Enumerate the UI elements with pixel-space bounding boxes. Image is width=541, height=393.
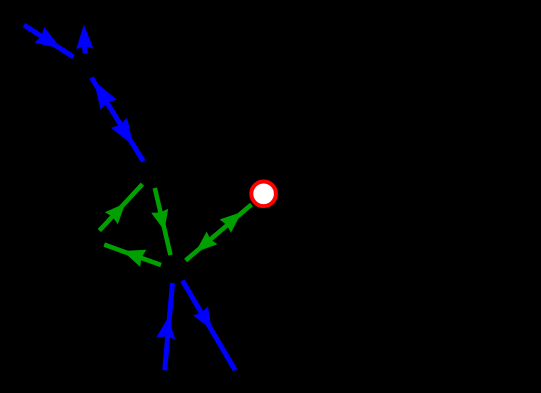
wire: green edge line from node E up-right to node B xyxy=(99,184,142,230)
arrowhead pointing up-right toward node B xyxy=(105,203,125,224)
wire: blue edge line from node C down to bottom-right node xyxy=(182,281,235,371)
arrowhead pointing up above node A xyxy=(76,25,93,49)
wire: blue edge line from off-left node into node A xyxy=(24,25,74,57)
wire: blue edge line between node A and node B xyxy=(91,78,143,162)
arrowhead toward node B (down-right) xyxy=(111,118,133,146)
wire: green edge line from node B down to node C xyxy=(155,188,171,255)
arrowhead pointing down-left toward node C xyxy=(195,232,217,253)
arrowhead pointing up toward node C xyxy=(156,318,175,340)
arrowhead on edge into node A xyxy=(34,27,61,49)
node D: red-ringed white circle xyxy=(251,182,276,207)
wire: green edge line between node C and red node D xyxy=(186,205,252,261)
arrowhead toward node A (up-left) xyxy=(94,81,117,110)
arrowhead pointing up-right toward node D xyxy=(220,212,242,233)
wire: green edge line from node C left to node E xyxy=(104,245,161,265)
arrowhead pointing left toward node E xyxy=(123,250,147,267)
wire: blue edge line from bottom node up to node C xyxy=(165,283,173,370)
wire: short blue stem of upward edge at node A xyxy=(82,45,88,54)
arrowhead pointing down toward node C xyxy=(151,209,168,231)
arrowhead pointing down-right away from node C xyxy=(193,306,212,329)
